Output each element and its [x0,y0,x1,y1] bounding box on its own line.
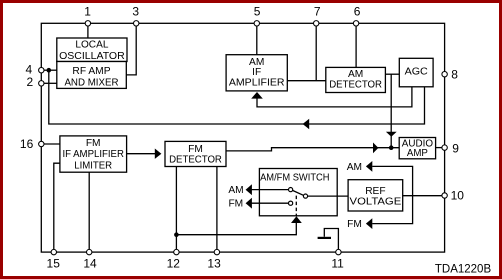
pin 14 [87,249,92,254]
wire pin16 to fm if amplifier [41,143,60,145]
wire pin14 to fm if amplifier [88,172,90,252]
block LOCAL OSCILLATOR [57,38,127,62]
junction audio amp input [389,145,394,150]
pin 6 [353,21,358,26]
switch contact common [303,194,307,198]
arrow left am ref [366,161,372,172]
block AGC [399,58,433,87]
wire fm if amplifier to fm detector [127,153,157,155]
pin 2 [39,81,44,86]
ground bar [318,237,331,239]
switch lever [293,190,304,195]
wire pin1 to local oscillator [87,23,89,38]
block RF AMP AND MIXER [57,62,127,89]
arrow left on agc feedback line [303,119,310,129]
wire pin6 to am detector [355,23,357,67]
wire pin2 to rf amp [41,82,57,84]
arrow right into audio amp junction [373,143,378,154]
block AM/FM SWITCH [259,169,337,216]
block AUDIO AMP [399,138,435,159]
pin 12 [174,249,179,254]
switch contact AM [289,188,293,192]
arrow up into am if amplifier [251,92,263,99]
pin 9 [442,145,447,150]
block AM DETECTOR [326,67,386,92]
block FM IF AMPLIFIER LIMITER [60,136,127,172]
wire fm detector to audio amp [226,148,399,151]
wire am detector to agc [385,73,399,75]
pin 1 [85,21,90,26]
redraw switch wires over box [251,190,348,216]
wire pin11 to ground [324,229,338,253]
wire pin7 to am if-det net [315,23,317,80]
wire pin12 to fm detector [175,167,177,253]
wire audio amp to pin9 [436,147,442,149]
pin 16 [39,141,44,146]
pin 3 [134,21,139,26]
pin 4 [39,68,44,73]
wire common out of switch [308,195,349,197]
arrow left fm ref [366,218,372,229]
wire am signal down to audio amp [390,74,392,148]
switch contact FM [289,201,293,205]
junction switch control [174,232,179,237]
wire pin3 to rf amp mixer [126,23,136,75]
arrow down am to audio amp [386,132,397,137]
pin 8 [442,72,447,77]
block FM DETECTOR [165,141,226,166]
IC outline [41,23,444,252]
arrow right into fm detector [155,149,162,159]
wire pin15 to fm if amplifier [54,163,60,252]
wire am into switch [251,189,288,191]
wire ref voltage to pin10 [403,195,442,197]
wire switch control from pin12 net [176,223,296,235]
wire fm into switch [251,202,288,204]
arrow left fm switch [246,198,252,209]
junction pin4 net [47,68,52,73]
pin 7 [314,21,319,26]
wire agc feedback to mixer input [49,70,425,124]
wire pin13 to fm detector [216,167,218,253]
pin 11 [336,249,341,254]
block REF VOLTAGE [348,180,403,211]
wire pin4 to rf amp [41,69,57,71]
wire agc feedback to am if amplifier [257,87,412,107]
wire ref voltage to am net [372,166,412,223]
wire am if amplifier to am detector [287,80,326,82]
arrow left am switch [246,184,252,195]
pin 15 [51,249,56,254]
pin 10 [442,193,447,198]
block AM IF AMPLIFIER [226,55,287,91]
wire pin5 to am if amplifier [256,23,258,54]
switch linkage dashed [295,196,297,216]
arrow up into switch bottom [291,216,302,223]
pin 5 [254,21,259,26]
pin 13 [214,249,219,254]
